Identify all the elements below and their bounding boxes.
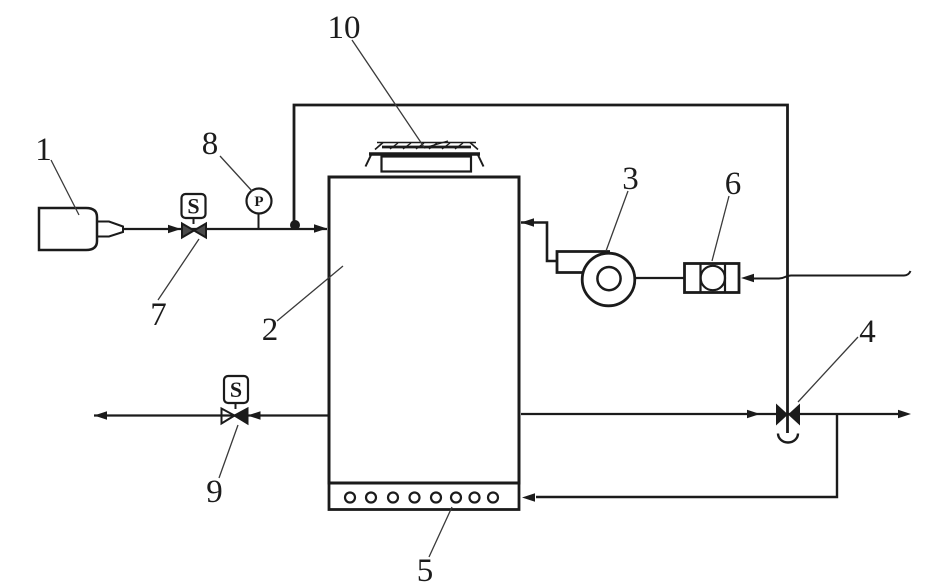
svg-text:2: 2 [262, 312, 279, 348]
svg-text:4: 4 [859, 314, 876, 350]
svg-text:S: S [187, 194, 199, 219]
svg-text:9: 9 [206, 474, 223, 510]
svg-text:5: 5 [417, 553, 434, 586]
svg-text:6: 6 [725, 166, 742, 202]
svg-text:1: 1 [35, 132, 52, 168]
svg-text:S: S [230, 377, 242, 402]
svg-text:3: 3 [622, 161, 639, 197]
svg-text:8: 8 [202, 126, 219, 162]
svg-text:P: P [254, 194, 263, 210]
svg-text:7: 7 [150, 297, 167, 333]
svg-text:10: 10 [328, 10, 361, 46]
